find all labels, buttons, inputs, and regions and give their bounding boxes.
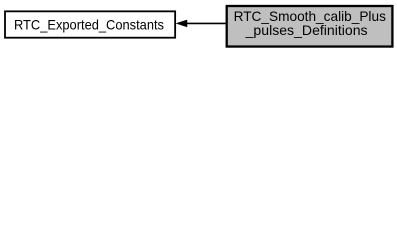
node RTC_Exported_Constants label — [14, 17, 164, 33]
svg-text:RTC_Exported_Constants: RTC_Exported_Constants — [14, 17, 164, 33]
background — [0, 0, 397, 52]
edge arrowhead pointing at RTC_Exported_Constants — [176, 20, 187, 27]
node RTC_Smooth_calib_Plus_pulses_Definitions label line 1 — [234, 8, 386, 24]
node RTC_Exported_Constants box — [5, 11, 175, 37]
svg-text:_pulses_Definitions: _pulses_Definitions — [245, 22, 368, 38]
node RTC_Smooth_calib_Plus_pulses_Definitions label line 2 — [245, 22, 368, 38]
edge wire from RTC_Smooth_calib_Plus_pulses_Definitions to RTC_Exported_Constants — [186, 22, 226, 24]
node RTC_Smooth_calib_Plus_pulses_Definitions box — [227, 6, 393, 47]
